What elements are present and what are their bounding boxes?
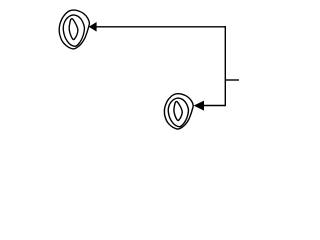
wire: right vertical line — [224, 26, 226, 106]
grommet 1 — [59, 10, 89, 49]
arrowhead to grommet 2 — [194, 101, 204, 111]
grommet 2 — [164, 94, 193, 129]
wire: label tick — [225, 79, 239, 81]
wire: upper leader line — [96, 26, 226, 28]
arrowhead to grommet 1 — [89, 22, 97, 32]
wire: lower leader line — [203, 105, 225, 107]
